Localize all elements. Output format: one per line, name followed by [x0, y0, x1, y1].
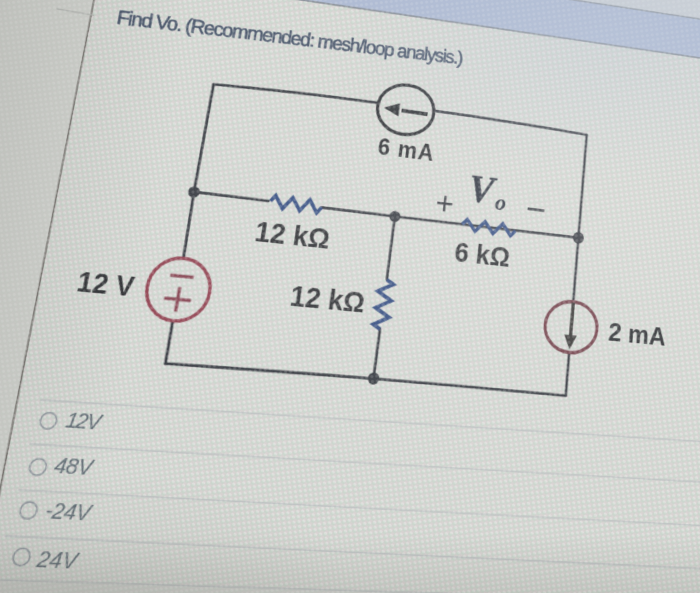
band bottom border line: [99, 0, 700, 90]
svg-text:-24V: -24V: [43, 498, 95, 526]
resistor 12 kOhm (vertical, middle): [373, 279, 394, 330]
junction dot bottom: [367, 372, 380, 385]
radio 1: [39, 412, 58, 429]
strip below last line: [0, 573, 700, 593]
radio 4: [11, 548, 31, 566]
radio 2: [28, 458, 48, 476]
svg-text:6 kΩ: 6 kΩ: [453, 237, 511, 273]
svg-text:2 mA: 2 mA: [607, 316, 666, 351]
blue toolbar band: [99, 0, 700, 90]
junction dot middle: [389, 210, 401, 222]
wire bottom: [165, 362, 565, 396]
arrow of 2 mA source: [571, 303, 574, 336]
gray area above blue band: [102, 0, 700, 54]
circuit wires: [164, 80, 587, 395]
resistor 6 kOhm: [462, 219, 516, 236]
svg-text:48V: 48V: [52, 453, 97, 481]
wire middle horizontal: [194, 192, 579, 238]
svg-text:12 V: 12 V: [75, 268, 137, 303]
page edge line: [0, 0, 137, 593]
wire right: [566, 135, 587, 396]
minus sign of Vo: [528, 209, 545, 211]
options separator lines: [0, 391, 700, 593]
plus sign of Vo: [437, 203, 452, 205]
current source 2 mA (right): [543, 299, 599, 355]
junction dot right: [573, 231, 585, 244]
current source 6 mA (top): [375, 81, 437, 138]
voltage source 12 V: [142, 255, 215, 323]
wire top: [214, 81, 587, 135]
band top border line: [108, 0, 700, 54]
svg-text:12V: 12V: [63, 409, 105, 436]
faint top-left line: [56, 9, 94, 15]
radio 3: [19, 502, 39, 520]
svg-text:24V: 24V: [33, 547, 81, 575]
resistor 12 kOhm (horizontal, top): [270, 195, 323, 213]
junction dot left: [187, 186, 200, 199]
wire middle vertical: [374, 216, 395, 378]
outside region left of page edge: [0, 0, 137, 593]
wire left: [164, 84, 213, 363]
arrow of 6 mA source: [402, 110, 428, 114]
